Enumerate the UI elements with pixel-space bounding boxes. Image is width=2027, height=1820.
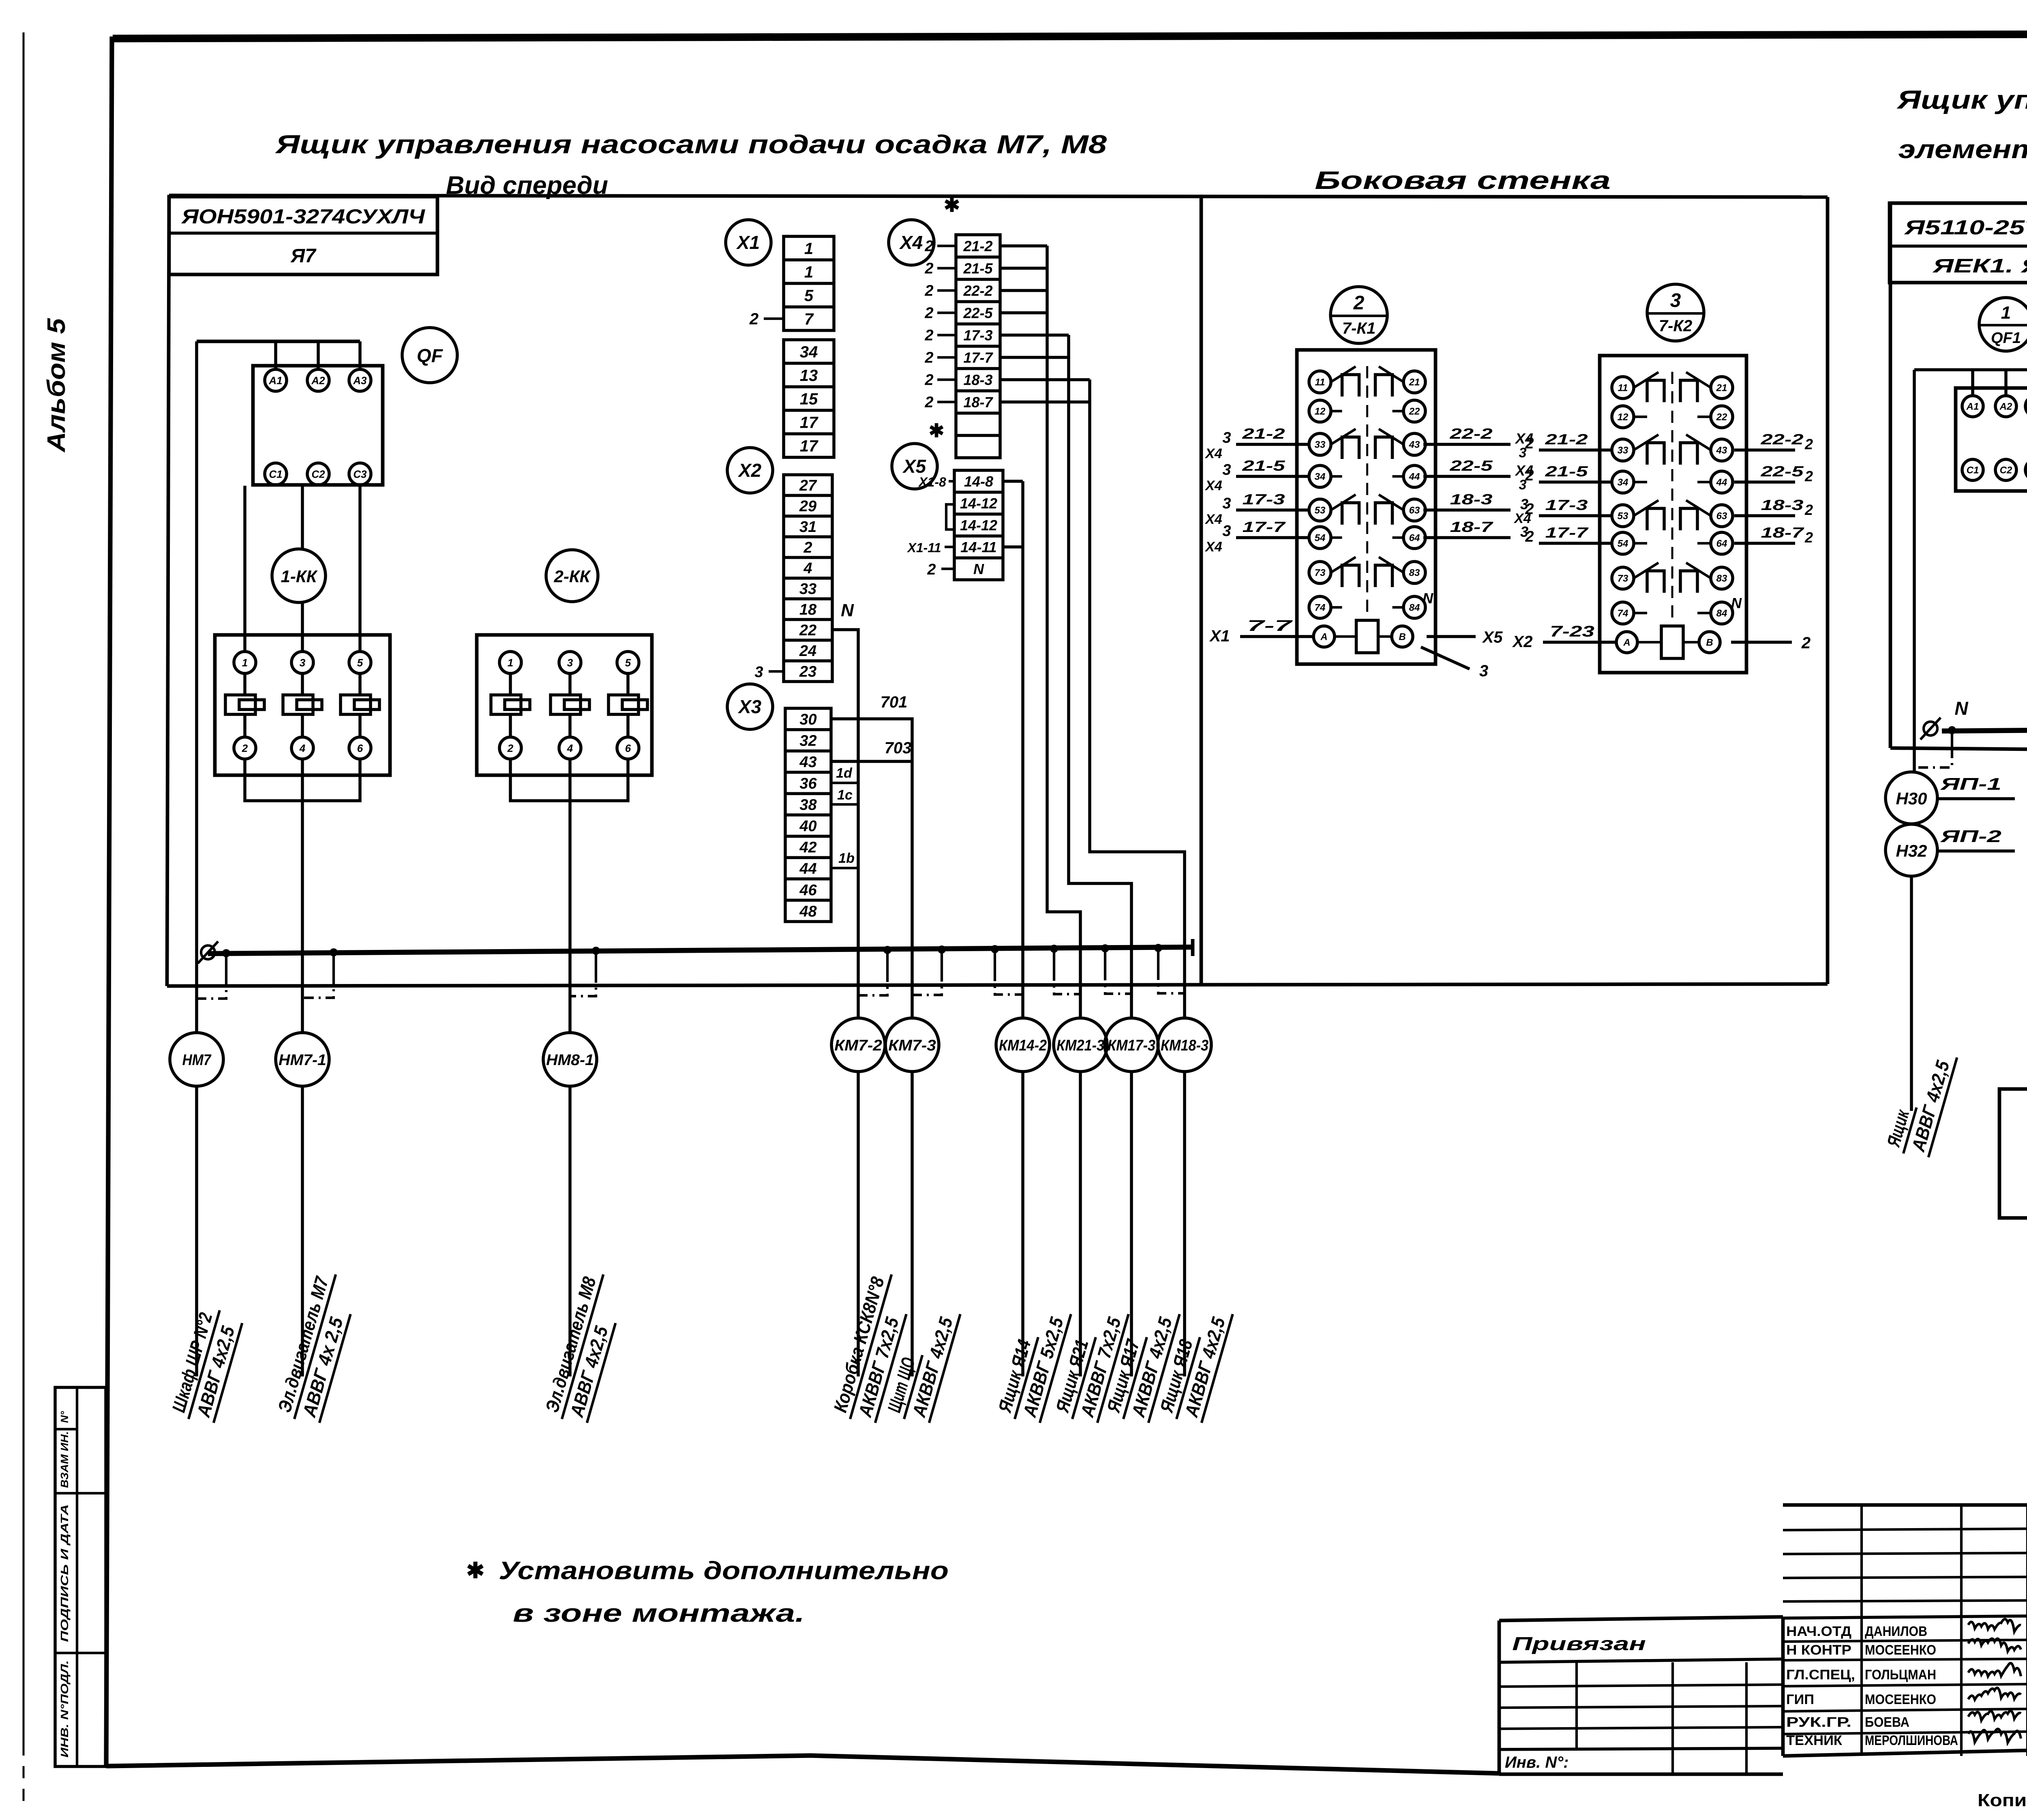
svg-text:Боковая стенка: Боковая стенка [1315,167,1611,195]
svg-text:21-5: 21-5 [963,260,993,277]
stub 1d at X3-36 [831,782,858,784]
QF1 A3 [2025,396,2027,417]
svg-text:83: 83 [1409,568,1420,579]
svg-text:ЯП-2: ЯП-2 [1940,827,2001,846]
svg-text:1b: 1b [838,851,855,866]
svg-text:53: 53 [1618,511,1628,522]
frame left border [106,36,112,1766]
relay 7-К2 wire label 22-2 [1734,448,1795,452]
terminal strip X1 designator [726,220,771,265]
relay 7-К1 coil [1356,620,1378,653]
svg-text:3: 3 [1222,461,1231,478]
svg-text:33: 33 [799,581,816,598]
svg-text:21-2: 21-2 [1545,431,1588,448]
svg-text:МЕРОЛШИНОВА: МЕРОЛШИНОВА [1865,1733,1958,1748]
svg-text:63: 63 [1409,505,1420,516]
paper fold line left [23,32,25,1743]
svg-text:22-2: 22-2 [1760,431,1803,448]
label box Я5110-2574УХЛЧ / ЯЕК1.ЯЕК-2 [1890,203,2027,283]
svg-text:21-5: 21-5 [1242,457,1286,474]
pin 6 [617,737,639,759]
svg-text:22-5: 22-5 [1449,457,1493,474]
svg-text:ДАНИЛОВ: ДАНИЛОВ [1865,1624,1927,1639]
cable label НМ8-1 [540,1268,628,1426]
svg-text:13: 13 [800,367,818,384]
relay 7-К2 pin 53 [1612,505,1634,527]
svg-text:2: 2 [1525,467,1534,484]
svg-text:17-7: 17-7 [963,349,993,366]
svg-text:17-7: 17-7 [1243,519,1286,535]
pin 3 [291,652,313,673]
svg-text:46: 46 [799,882,817,899]
stub 3 at X2-23 [769,670,784,673]
svg-text:3: 3 [1222,523,1231,540]
cable to КМ17-3 [1130,1072,1133,1376]
frame top border [113,33,2027,39]
svg-text:54: 54 [1618,538,1628,549]
relay 7-К2 pin 33 [1612,439,1634,461]
svg-text:701: 701 [881,693,908,711]
svg-text:44: 44 [799,860,816,877]
terminal strip X5 designator [892,444,937,489]
svg-text:Ящик управления нагревательн: Ящик управления нагревательными [1896,85,2027,114]
relay 7-К2 neutral wire right [1731,641,1792,644]
svg-text:ГЛ.СПЕЦ,: ГЛ.СПЕЦ, [1786,1667,1855,1683]
QF1 A2 [1995,396,2016,417]
svg-text:22: 22 [1409,406,1420,417]
terminal strip X2 [784,475,832,682]
terminal strip X2 designator [727,448,773,493]
terminal strip X1 group A [784,236,834,330]
svg-text:Х2: Х2 [1512,633,1533,651]
svg-text:21: 21 [1716,383,1727,394]
svg-text:А: А [1320,632,1327,643]
svg-text:НМ8-1: НМ8-1 [546,1052,594,1069]
svg-text:3: 3 [1222,429,1231,446]
svg-text:QF1: QF1 [1991,330,2021,347]
relay 7-К1 pin 12 [1309,400,1331,422]
svg-text:ПОДПИСЬ И ДАТА: ПОДПИСЬ И ДАТА [58,1504,71,1642]
relay 7-К1 wire label 17-3 [1236,508,1309,512]
destination НМ8-1 [543,1033,597,1086]
relay 7-К2 pin A [1616,632,1637,653]
pin 4 [559,737,581,759]
destination КМ14-2 [996,1018,1050,1072]
cable to НМ7 [195,1086,198,1376]
pin 2 [499,737,521,759]
cable to КМ7-2 [857,1072,860,1376]
svg-text:НАЧ.ОТД: НАЧ.ОТД [1786,1624,1851,1639]
terminal strip X4 designator [889,220,934,265]
svg-text:КМ17-3: КМ17-3 [1108,1037,1155,1054]
terminal A2 [307,369,329,391]
svg-text:2: 2 [924,238,933,255]
svg-text:2: 2 [924,305,933,322]
relay 7-К2 contact group 2 [1634,435,1658,450]
svg-text:44: 44 [1716,477,1727,488]
svg-text:17-3: 17-3 [1243,491,1285,508]
terminal C1 [265,463,287,485]
destination НМ7 [170,1033,223,1086]
svg-text:ГОЛЬЦМАН: ГОЛЬЦМАН [1865,1667,1936,1683]
svg-text:Х1-8: Х1-8 [918,475,946,489]
svg-text:3: 3 [754,664,763,681]
relay 7-К1 wire to X5 [1427,635,1476,638]
side-wall divider [1200,195,1203,985]
wire to НМ7 (down left side) [195,341,198,1033]
svg-text:703: 703 [885,739,912,757]
bracket X5 rows 2-3 [946,504,954,529]
destination КМ21-3 [1054,1018,1107,1072]
svg-text:4: 4 [299,742,306,754]
svg-text:Н32: Н32 [1896,841,1927,860]
svg-text:элементами заслонки ЕК1, ЕК2: элементами заслонки ЕК1, ЕК2 [1898,135,2027,164]
heater element [551,695,581,714]
relay 7-К2 socket box [1600,356,1746,673]
svg-text:14-11: 14-11 [960,539,996,555]
svg-text:МОСЕЕНКО: МОСЕЕНКО [1865,1642,1936,1658]
bus jumper to КМ17-3 [1101,944,1109,952]
svg-text:48: 48 [799,903,817,920]
terminal strip X5 [954,470,1003,580]
svg-text:29: 29 [799,498,816,515]
wire QF1 feed down to Н30 [1913,370,1916,772]
svg-text:22-2: 22-2 [963,282,992,299]
svg-text:2: 2 [924,260,933,277]
svg-text:2: 2 [927,561,936,578]
svg-text:18-3: 18-3 [1450,491,1493,508]
svg-text:22-5: 22-5 [1760,463,1804,480]
relay 7-К2 pin 74 [1612,602,1634,624]
svg-text:15: 15 [800,390,818,408]
stamp upper rows table [1783,1503,2027,1507]
svg-text:Альбом 5: Альбом 5 [43,317,71,453]
destination НМ7-1 [276,1033,329,1086]
terminal strip X3 designator [727,684,773,729]
svg-text:2: 2 [1804,529,1813,546]
svg-text:34: 34 [1618,477,1628,488]
bottom loop wire [510,759,628,801]
stub 2 at X4 row 18-7 [937,401,956,403]
svg-text:2: 2 [1525,528,1534,545]
svg-text:7-7: 7-7 [1247,617,1293,635]
svg-text:18-7: 18-7 [1761,524,1805,541]
heater element [341,695,371,714]
relay 7-К1 designator [1331,287,1387,343]
svg-text:N: N [1954,698,1968,719]
svg-text:С3: С3 [353,468,367,480]
wire to contactor [301,486,304,652]
stub 1c at X3-38 [831,803,858,806]
stub 2 at X4 row 21-2 [937,244,956,247]
svg-text:7-К1: 7-К1 [1342,319,1376,337]
relay 7-К2 pin 73 [1612,567,1634,589]
svg-text:В: В [1706,637,1713,648]
svg-text:84: 84 [1716,608,1727,619]
cable label НМ7 [167,1304,244,1426]
label box ЯОН5901-3274СУХЛЧ / Я7 [169,197,437,274]
svg-text:2: 2 [507,742,514,754]
stub 2 at X4 row 22-2 [937,289,956,292]
relay 7-К2 pin 54 [1612,532,1634,554]
relay 7-К1 pin 64 [1403,527,1425,549]
relay 7-К1 pin 63 [1403,499,1425,521]
svg-text:3: 3 [1479,662,1488,680]
svg-text:33: 33 [1315,439,1326,450]
thermal relay 2-КК block [477,635,652,775]
QF1 C3 [2025,459,2027,480]
circuit breaker 1/QF1 designator [1979,298,2027,351]
stamp attachment table [1499,1617,1783,1621]
svg-text:24: 24 [799,643,816,660]
svg-text:Х4: Х4 [1204,478,1222,493]
svg-text:30: 30 [799,711,816,728]
bus jumper to Н30 [1948,726,1956,734]
svg-text:2: 2 [1525,435,1534,452]
svg-text:2: 2 [1804,502,1813,518]
svg-text:Х4: Х4 [899,232,923,253]
wire 1-КК pin4 to НМ7-1 [301,759,304,1033]
svg-text:43: 43 [1716,445,1727,456]
svg-text:44: 44 [1409,472,1420,482]
stub 2 at X4 row 18-3 [937,378,956,381]
svg-text:2: 2 [1525,501,1534,518]
svg-text:✱: ✱ [944,195,960,216]
lamp Н30 [1886,772,1937,824]
svg-text:2: 2 [1804,468,1813,484]
svg-text:Х1-11: Х1-11 [906,540,941,555]
pin 3 [559,652,581,673]
svg-text:23: 23 [799,663,816,680]
relay 7-К1 pin 53 [1309,499,1331,521]
svg-text:12: 12 [1618,412,1628,423]
relay 7-К1 center line [1366,366,1368,616]
svg-text:2: 2 [242,742,248,754]
bus jumper to КМ7-2 [883,946,891,954]
relay 7-К1 contact group 4 [1331,557,1356,572]
cable label КМ18-3 [1155,1301,1233,1426]
QF1 C1 [1962,459,1983,480]
svg-text:А3: А3 [353,374,367,386]
svg-text:С1: С1 [1967,465,1979,476]
wire X4 17-3/17-7 bus down [1000,334,1069,337]
svg-text:ЯЕК1. ЯЕК-2: ЯЕК1. ЯЕК-2 [1932,255,2027,277]
relay 7-К1 pin 21 [1403,371,1425,393]
relay 7-К1 pin 11 [1309,371,1331,393]
svg-text:В: В [1399,632,1406,643]
relay 7-К1 pin 22 [1403,400,1425,422]
svg-text:ИНВ. N°ПОДЛ.: ИНВ. N°ПОДЛ. [58,1660,71,1758]
cable label КМ21-3 [1050,1301,1129,1426]
relay 7-К1 wire label 18-3 [1423,508,1511,512]
svg-text:1: 1 [508,656,513,669]
terminal strip X4 [956,235,1000,458]
svg-text:7-23: 7-23 [1550,623,1594,640]
relay 7-К2 wire label 21-2 [1539,448,1612,452]
svg-text:18-3: 18-3 [963,371,992,388]
svg-text:1d: 1d [836,765,853,781]
svg-text:7: 7 [804,310,814,328]
terminal strip X3 [785,708,831,922]
svg-text:31: 31 [799,519,816,536]
wire 701 from X3-30 to КМ7-3 [831,719,912,1018]
cable label Ящик АВВГ4х2,5 [1881,1044,1957,1160]
svg-text:74: 74 [1315,602,1326,613]
cable below Н32 [1910,876,1913,1111]
stub 2 at X1-7 [764,317,784,320]
svg-text:4: 4 [567,742,573,754]
svg-text:КМ21-3: КМ21-3 [1056,1037,1104,1054]
enclosure bottom edge [167,984,1828,986]
svg-text:5: 5 [357,656,363,669]
relay 7-К2 wire label 22-5 [1734,480,1795,484]
svg-text:N: N [841,600,854,620]
svg-text:2: 2 [803,539,812,556]
pin 4 [291,737,313,759]
svg-text:2: 2 [924,394,933,411]
svg-text:21-2: 21-2 [963,238,992,254]
relay 7-К2 coil [1661,626,1683,658]
wire to contactor [243,486,246,652]
svg-text:4: 4 [803,560,812,577]
svg-text:2: 2 [924,327,933,344]
relay 7-К1 contact group 1 [1331,367,1356,382]
wire N from X2-22 to КМ7-2 [832,630,858,1018]
svg-text:РУК.ГР.: РУК.ГР. [1786,1715,1851,1730]
wire to contactor [358,486,362,652]
svg-text:Я5110-2574УХЛЧ: Я5110-2574УХЛЧ [1903,216,2027,239]
svg-text:ЯП-1: ЯП-1 [1940,774,2001,793]
svg-text:Н30: Н30 [1896,789,1927,808]
svg-text:2: 2 [1804,436,1813,452]
svg-text:N: N [1731,595,1742,611]
stamp names table [1783,1616,2027,1618]
svg-text:КМ14-2: КМ14-2 [999,1037,1047,1054]
svg-text:5: 5 [625,656,631,669]
svg-text:40: 40 [799,818,816,835]
heater box bottom edge [1890,748,2027,753]
svg-text:21-2: 21-2 [1242,425,1285,442]
svg-text:С1: С1 [269,468,282,480]
svg-text:N: N [973,561,984,577]
svg-text:ТЕХНИК: ТЕХНИК [1786,1733,1842,1748]
relay 7-К2 wire label 21-5 [1539,480,1612,484]
relay 7-К1 wire label 22-5 [1423,475,1511,478]
cable to НМ8-1 [568,1086,572,1376]
relay 7-К1 socket box [1297,350,1436,664]
svg-text:36: 36 [799,775,817,792]
relay 7-К1 pin 33 [1309,433,1331,455]
relay 7-К2 pin 34 [1612,471,1634,493]
svg-text:1c: 1c [837,787,853,803]
svg-text:2: 2 [924,372,933,389]
thermal relay 1-КК designator [272,549,326,602]
relay 7-К1 pin B [1392,626,1413,647]
svg-text:А: А [1623,637,1630,648]
svg-text:34: 34 [800,343,818,361]
relay 7-К2 pin 44 [1711,471,1733,493]
svg-text:ВЗАМ ИН.: ВЗАМ ИН. [58,1431,71,1488]
relay 7-К2 wire label 18-7 [1734,542,1795,545]
breaker QF1 terminal box [1956,388,2027,491]
svg-text:2: 2 [924,349,933,367]
frame bottom border [106,1756,1499,1773]
label ЯП-2 at Н32 [1937,849,2015,853]
supply bus to contactor [197,340,360,343]
relay 7-К2 pin 12 [1612,406,1634,428]
cable to НМ7-1 [301,1086,304,1376]
wire Н30 feed [1913,772,1916,773]
svg-text:2: 2 [749,310,759,328]
svg-text:С2: С2 [311,468,325,480]
svg-text:11: 11 [1315,377,1325,388]
heater element [225,695,255,714]
svg-text:63: 63 [1716,511,1727,522]
svg-text:74: 74 [1618,608,1628,619]
svg-text:3: 3 [300,656,306,669]
svg-text:Х4: Х4 [1204,539,1222,555]
svg-text:22-5: 22-5 [963,304,993,321]
svg-text:Ящик управления насосами по: Ящик управления насосами подачи осадка М… [274,130,1107,159]
terminal A1 [265,369,287,391]
svg-text:2: 2 [1801,634,1811,652]
stub 1b at X3-44 [831,867,858,869]
cable label КМ14-2 [993,1301,1071,1426]
svg-text:17-3: 17-3 [963,327,992,343]
svg-text:38: 38 [799,796,817,813]
neutral bus N (left box) [208,947,1193,954]
svg-text:1: 1 [804,240,813,257]
relay 7-К2 wire label 17-3 [1539,514,1612,517]
heater element [609,695,639,714]
svg-text:КМ18-3: КМ18-3 [1161,1037,1208,1054]
cable to КМ7-3 [911,1072,914,1376]
cable label КМ17-3 [1101,1301,1180,1426]
svg-text:14-12: 14-12 [960,517,997,534]
pin 2 [234,737,256,759]
svg-text:БОЕВА: БОЕВА [1865,1715,1909,1730]
svg-text:1: 1 [804,263,813,281]
svg-text:КМ7-3: КМ7-3 [888,1037,936,1054]
svg-text:18: 18 [799,601,817,618]
relay 7-К2 pin 11 [1612,377,1634,399]
cable label НМ7-1 [272,1268,360,1426]
relay 7-К1 pin 73 [1309,562,1331,583]
svg-text:Я7: Я7 [290,245,317,267]
wire 2-КК pin4 to НМ8-1 [568,759,572,1033]
svg-text:33: 33 [1618,445,1628,456]
heater EK loop wire [1999,1089,2027,1218]
svg-text:32: 32 [799,733,816,750]
svg-text:Инв. N°:: Инв. N°: [1505,1754,1569,1771]
relay 7-К2 pin B [1699,632,1720,653]
destination КМ18-3 [1158,1018,1211,1072]
cable to КМ14-2 [1021,1072,1024,1376]
svg-text:18-7: 18-7 [1450,519,1494,535]
svg-text:КМ7-2: КМ7-2 [834,1037,882,1054]
bus jumper to КМ18-3 [1154,944,1162,952]
relay 7-К2 center line [1671,372,1673,622]
relay 7-К1 pin 74 [1309,596,1331,618]
svg-text:✱: ✱ [929,420,945,441]
pin 1 [234,652,256,673]
svg-text:А2: А2 [311,374,325,386]
svg-text:QF: QF [417,345,444,366]
relay 7-К1 wire label 22-2 [1423,443,1511,446]
svg-text:6: 6 [357,742,363,754]
wire X4 18-3/18-7 bus down [1000,378,1090,382]
svg-text:Установить дополнительно: Установить дополнительно [499,1557,949,1585]
